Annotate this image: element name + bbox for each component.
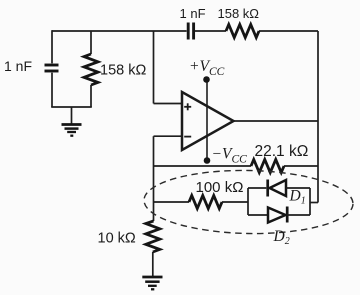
svg-text:1 nF: 1 nF (180, 6, 206, 21)
op-amp U1 (182, 92, 234, 150)
node -VCC terminal dot (204, 157, 211, 164)
wire resistor bottom lead (90, 85, 92, 107)
resistor Rf 22.1 k (251, 160, 284, 173)
wire bottom of RC network (51, 106, 92, 108)
wire ground stub (71, 107, 73, 124)
wire resistor top lead (left 158 k) (90, 31, 92, 54)
pin label minus (184, 136, 191, 138)
wire noninverting input vertical (153, 31, 155, 104)
wire 100 k row left (154, 201, 190, 203)
wire top right segment (259, 30, 318, 32)
ground (RC network) (62, 125, 82, 136)
wire D1 right lead (286, 187, 310, 189)
svg-text:158 kΩ: 158 kΩ (100, 62, 146, 78)
pin label plus (184, 103, 191, 110)
resistor 100 k (189, 196, 222, 209)
svg-text:1 nF: 1 nF (4, 58, 32, 74)
wire inverting input horizontal (154, 135, 183, 137)
wire capacitor bottom lead (51, 73, 53, 107)
resistor 10 k (146, 221, 160, 252)
wire 10 k bottom lead (152, 252, 154, 276)
capacitor C (series 1 nF) (188, 23, 193, 40)
wire 100 k row right (222, 201, 248, 203)
wire D2 left lead (248, 214, 268, 216)
wire supply vertical through op-amp (206, 80, 208, 161)
wire feedback row left (154, 165, 252, 167)
diode D2 (cathode right) (268, 207, 287, 223)
svg-text:10 kΩ: 10 kΩ (98, 230, 136, 246)
diode D1 (cathode left) (268, 180, 286, 197)
capacitor C (shunt 1 nF) (45, 65, 59, 71)
wire diode box right vertical (309, 188, 311, 215)
wire inverting node vertical (to feedback and 10 k) (153, 136, 155, 221)
wire capacitor top lead (left 1 nF) (51, 30, 53, 63)
wire diode box to output bus (310, 202, 318, 204)
resistor R (series 158 k) (226, 25, 259, 38)
resistor R (shunt 158 k) (84, 54, 98, 85)
wire noninverting input horizontal (154, 103, 183, 105)
wire top horizontal left segment (52, 30, 187, 32)
svg-text:22.1 kΩ: 22.1 kΩ (255, 143, 309, 160)
ground (10 k) (142, 277, 162, 289)
wire D2 right lead (287, 214, 310, 216)
wire right vertical bus (317, 31, 319, 203)
wire op-amp output (234, 120, 319, 122)
svg-text:158 kΩ: 158 kΩ (218, 6, 260, 21)
svg-text:100 kΩ: 100 kΩ (196, 179, 244, 196)
wire top between capacitor and resistor (195, 30, 226, 32)
dashed ellipse around limiter network (143, 169, 353, 236)
wire feedback row right (284, 165, 318, 167)
node +VCC terminal dot (203, 76, 210, 83)
wire D1 anode lead (248, 187, 266, 189)
wire diode box left vertical (247, 188, 249, 215)
